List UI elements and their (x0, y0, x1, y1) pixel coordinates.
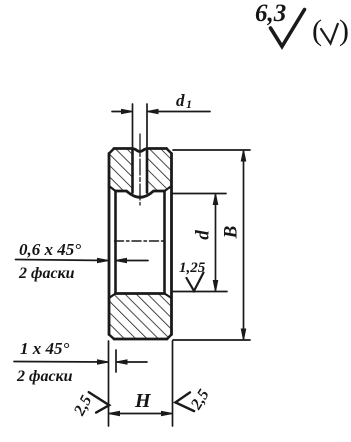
svg-text:d: d (192, 230, 213, 240)
outer top surface with hole dip (114, 149, 167, 152)
dimension d top extension line (173, 193, 226, 195)
svg-text:2 фаски: 2 фаски (16, 368, 73, 385)
dimension d1 right tail and arrow (147, 109, 210, 113)
hatching bottom wall (109, 294, 172, 340)
bore chamfer line right (163, 191, 166, 294)
roughness 2,5 right check mark (175, 392, 194, 411)
label d1 (176, 91, 192, 111)
roughness 2,5 left label (71, 393, 96, 420)
svg-text:1,25: 1,25 (179, 260, 206, 276)
label B (220, 226, 241, 240)
roughness 2,5 left check mark (89, 392, 110, 413)
chamfer 1x45 counter arrow (116, 360, 147, 364)
hole d1 centerline (139, 134, 141, 205)
bore corner chamfer top-right (165, 186, 172, 191)
dimension B line with arrows (241, 150, 245, 340)
roughness 1,25 label (179, 260, 206, 276)
chamfer corner top-right (167, 149, 172, 154)
dimension d line with arrows (213, 194, 217, 292)
chamfer 1x45 extension tick (115, 350, 117, 372)
dimension d1 extension line left (132, 104, 134, 147)
outer profile left end face (108, 154, 111, 335)
hole d1 right wall (146, 150, 149, 193)
outer bottom surface (114, 338, 167, 341)
parenthesis left (312, 14, 322, 47)
chamfer corner bottom-right (167, 335, 172, 340)
svg-text:1: 1 (186, 97, 192, 111)
bore chamfer line left (114, 191, 117, 294)
chamfer note 1x45 text (16, 339, 73, 385)
bore corner chamfer top-left (109, 186, 116, 191)
label d (192, 230, 213, 240)
svg-text:2,5: 2,5 (71, 393, 96, 420)
dimension H left extension line (108, 341, 110, 426)
parenthesis right (339, 14, 349, 47)
dimension d1 left tail and arrow (112, 109, 133, 113)
chamfer note 0,6x45 leader with arrow (16, 258, 109, 262)
hatching upper-left wall (109, 149, 133, 192)
bore corner chamfer bottom-right (165, 294, 172, 299)
general roughness check mark (271, 10, 305, 47)
chamfer 0,6 counter arrow (116, 258, 149, 262)
svg-text:H: H (134, 390, 152, 412)
bore bottom line (top of bottom wall) (116, 292, 165, 295)
svg-text:2 фаски: 2 фаски (18, 265, 75, 282)
dimension B top extension line (173, 149, 250, 151)
outer profile right end face (170, 154, 173, 335)
svg-text:6,3: 6,3 (255, 0, 286, 27)
svg-text:(: ( (312, 14, 322, 47)
chamfer corner bottom-left (109, 335, 114, 340)
svg-text:d: d (176, 91, 185, 110)
svg-text:0,6 x 45°: 0,6 x 45° (19, 240, 81, 259)
roughness 2,5 right label (187, 387, 213, 414)
general roughness 6,3 label (255, 0, 286, 27)
label H (134, 390, 152, 412)
svg-text:B: B (220, 226, 241, 240)
chamfer note 0,6x45 text (18, 240, 81, 282)
hatching upper-right wall (147, 149, 172, 192)
dimension H right extension line (172, 341, 174, 426)
svg-text:): ) (339, 14, 349, 47)
alternate roughness check mark (321, 24, 338, 44)
bore horizontal dash-dot centerline (115, 240, 166, 242)
hole d1 left wall (131, 150, 134, 193)
bore top line (bottom of upper wall) with drill intersection arc (116, 191, 165, 197)
chamfer note 1x45 leader with arrow (14, 360, 109, 364)
svg-text:1 x 45°: 1 x 45° (20, 339, 70, 358)
chamfer corner top-left (109, 149, 114, 154)
dimension H line with arrows (109, 411, 173, 415)
dimension B bottom extension line (173, 339, 250, 341)
dimension d1 extension line right (146, 104, 148, 147)
dimension d bottom extension line (173, 291, 227, 293)
roughness 1,25 check mark (187, 273, 204, 292)
bore corner chamfer bottom-left (109, 294, 116, 299)
